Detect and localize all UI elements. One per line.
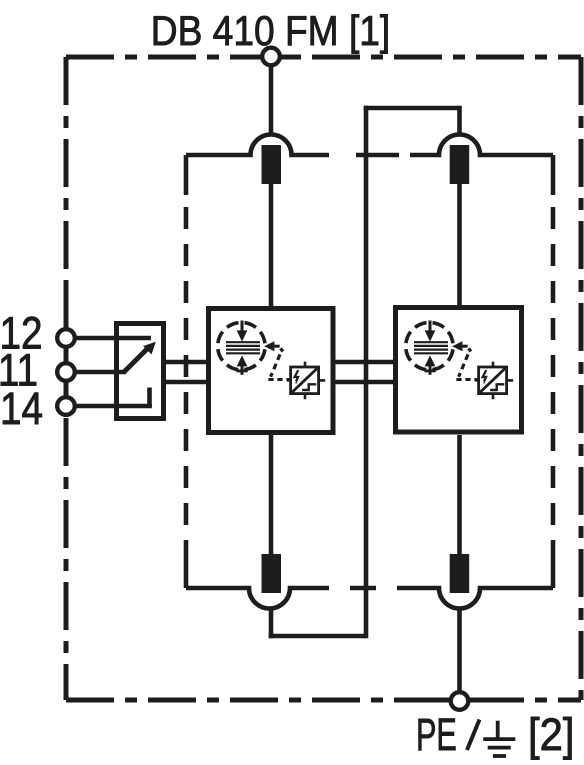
wire module F2 to disconnector E4 bbox=[457, 435, 462, 554]
label DB 410 FM [1] bbox=[151, 8, 391, 55]
changeover contact K1 box bbox=[117, 324, 164, 419]
wire terminal 11 to contact bbox=[75, 370, 126, 375]
svg-text:[2]: [2] bbox=[528, 710, 575, 760]
label [2] bbox=[528, 710, 575, 760]
slash separator bbox=[467, 720, 480, 751]
device outline left edge bbox=[64, 57, 69, 700]
wire riser between modules bbox=[364, 106, 369, 639]
varistor pins bbox=[475, 362, 513, 400]
trigger control line (dashed) bbox=[268, 348, 289, 379]
spark gap bottom arrow bbox=[425, 355, 436, 374]
step response glyph bbox=[302, 384, 316, 390]
spark gap dashed circle bbox=[406, 323, 453, 370]
terminal 12 bbox=[57, 329, 75, 347]
label 12 bbox=[0, 308, 43, 358]
varistor pins bbox=[287, 362, 325, 400]
wire bottom link bbox=[269, 634, 366, 639]
protection circuit enclosure right edge bbox=[551, 155, 556, 588]
wire terminal 14 to contact bbox=[75, 404, 152, 409]
wire terminal 1 to disconnector E1 bbox=[269, 67, 274, 135]
trigger control line (dashed) bbox=[456, 348, 477, 379]
trigger arrow bbox=[264, 341, 280, 351]
wire disconnector E2 down bbox=[269, 609, 274, 639]
label PE bbox=[416, 710, 457, 760]
spark gap module F1 box bbox=[209, 309, 334, 433]
disconnector E3 bbox=[450, 145, 470, 184]
wire contact to module F1 (lower) bbox=[166, 380, 206, 385]
protection circuit enclosure left edge bbox=[184, 155, 189, 588]
terminal 11 bbox=[57, 363, 75, 381]
varistor box and diagonal bbox=[291, 367, 319, 394]
wire down to disconnector E3 bbox=[457, 106, 462, 135]
contact K1 fixed contact 14 bbox=[147, 388, 152, 409]
ground symbol bbox=[483, 721, 515, 756]
device outline top edge bbox=[66, 55, 581, 60]
wire module F1 to F2 (upper) bbox=[335, 360, 394, 365]
wire disconnector E1 to spark gap module F1 bbox=[269, 184, 274, 306]
contact K1 moving arm bbox=[124, 347, 150, 373]
surge impulse glyph bbox=[483, 370, 487, 383]
svg-text:14: 14 bbox=[0, 383, 43, 433]
terminal 1 (top) bbox=[262, 48, 280, 66]
device outline right edge bbox=[579, 57, 584, 700]
terminal 14 bbox=[57, 397, 75, 415]
wire top link bbox=[364, 106, 460, 111]
varistor symbol in F2 bbox=[475, 362, 513, 400]
device outline bottom edge bbox=[66, 698, 581, 703]
svg-text:PE: PE bbox=[416, 710, 457, 760]
surge impulse glyph bbox=[295, 370, 299, 383]
spark gap module F2 box bbox=[396, 308, 522, 433]
trigger arrow bbox=[452, 341, 468, 351]
varistor symbol in F1 bbox=[287, 362, 325, 400]
spark gap electrode plates bbox=[414, 342, 448, 353]
terminal PE (bottom) bbox=[451, 692, 469, 710]
wire terminal 12 to contact bbox=[75, 336, 151, 341]
contact K1 arrowhead bbox=[143, 342, 156, 355]
triggered spark gap symbol F1 bbox=[218, 321, 290, 380]
spark gap bottom arrow bbox=[237, 355, 248, 374]
spark gap top arrow bbox=[425, 321, 436, 342]
label 11 bbox=[0, 345, 38, 395]
label 14 bbox=[0, 383, 43, 433]
wire module F1 to F2 (lower) bbox=[335, 380, 394, 385]
spark gap dashed circle bbox=[218, 323, 265, 370]
varistor box and diagonal bbox=[479, 367, 507, 394]
disconnector E2 bbox=[262, 554, 282, 593]
spark gap top arrow bbox=[237, 321, 248, 342]
protection circuit enclosure bottom edge with hops bbox=[186, 588, 553, 609]
protection circuit enclosure top edge with hops bbox=[186, 135, 553, 156]
triggered spark gap symbol F2 bbox=[406, 321, 478, 380]
wire module F1 to disconnector E2 bbox=[269, 435, 274, 554]
disconnector E1 bbox=[262, 145, 282, 184]
step response glyph bbox=[490, 384, 504, 390]
wire disconnector E4 to terminal PE bbox=[457, 609, 462, 692]
disconnector E4 bbox=[450, 554, 470, 593]
wire disconnector E3 to spark gap module F2 bbox=[457, 184, 462, 306]
wire contact to module F1 (upper) bbox=[166, 360, 206, 365]
spark gap electrode plates bbox=[226, 342, 260, 353]
